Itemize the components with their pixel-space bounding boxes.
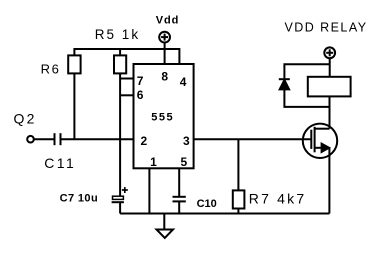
svg-text:555: 555: [151, 111, 174, 123]
IC U1 555 timer: [134, 64, 194, 168]
svg-text:2: 2: [141, 134, 148, 148]
resistor R6: [68, 55, 80, 73]
svg-text:8: 8: [161, 69, 168, 83]
wire C7 to ground rail: [119, 202, 121, 213]
wire C10 to ground rail: [178, 201, 180, 213]
wire diode bottom: [284, 90, 329, 107]
resistor R5: [114, 55, 126, 73]
wire ground rail: [120, 213, 329, 215]
wire source to ground rail: [328, 148, 330, 214]
svg-text:C11: C11: [44, 155, 76, 171]
wire R7 bottom stub: [237, 209, 239, 214]
wire pin 3 to gate: [194, 138, 312, 140]
resistor R7: [233, 190, 245, 208]
wire R6 bottom: [73, 73, 75, 139]
diode D1: [279, 79, 290, 89]
wire R5 to C7: [119, 73, 121, 196]
relay coil K1: [308, 77, 351, 97]
svg-text:C7 10u: C7 10u: [60, 193, 98, 205]
svg-text:Q2: Q2: [14, 111, 37, 127]
svg-text:4: 4: [180, 75, 187, 89]
wire top Vdd rail: [74, 49, 179, 64]
wire pin 5 to C10: [178, 168, 180, 197]
svg-text:C10: C10: [197, 198, 217, 210]
svg-text:R5 1k: R5 1k: [95, 27, 140, 42]
wire pin 7 stub: [120, 78, 133, 80]
svg-text:3: 3: [183, 134, 190, 148]
svg-text:6: 6: [137, 88, 144, 102]
wire pin 1 to ground rail: [148, 168, 150, 213]
svg-text:R6: R6: [41, 61, 61, 76]
wire diode top: [284, 64, 329, 79]
ground: [157, 230, 174, 239]
wire R5 top stub: [119, 49, 121, 55]
svg-text:R7 4k7: R7 4k7: [249, 190, 307, 206]
wire coil to drain: [329, 96, 331, 128]
node Q2 terminal: [27, 136, 34, 143]
wire R7 top stub: [237, 139, 239, 190]
power Vdd symbol: [159, 32, 170, 43]
capacitor C10: [173, 197, 186, 202]
svg-text:7: 7: [137, 74, 144, 88]
wire pin 6 stub: [120, 94, 133, 96]
svg-text:VDD RELAY: VDD RELAY: [285, 20, 368, 34]
power Vdd relay symbol: [324, 47, 335, 58]
wire ground stub: [163, 214, 165, 230]
wire Vdd relay to coil: [329, 58, 331, 77]
capacitor C7 electrolytic: [112, 187, 128, 202]
svg-text:5: 5: [181, 155, 188, 169]
wire Q2 to C11: [34, 138, 54, 140]
svg-text:1: 1: [150, 155, 157, 169]
wire C11 to pin 2: [62, 138, 134, 140]
capacitor C11: [55, 133, 61, 145]
transistor Q1 mosfet: [303, 124, 337, 158]
svg-text:Vdd: Vdd: [156, 14, 179, 26]
wire Vdd to pin 8: [164, 43, 166, 65]
